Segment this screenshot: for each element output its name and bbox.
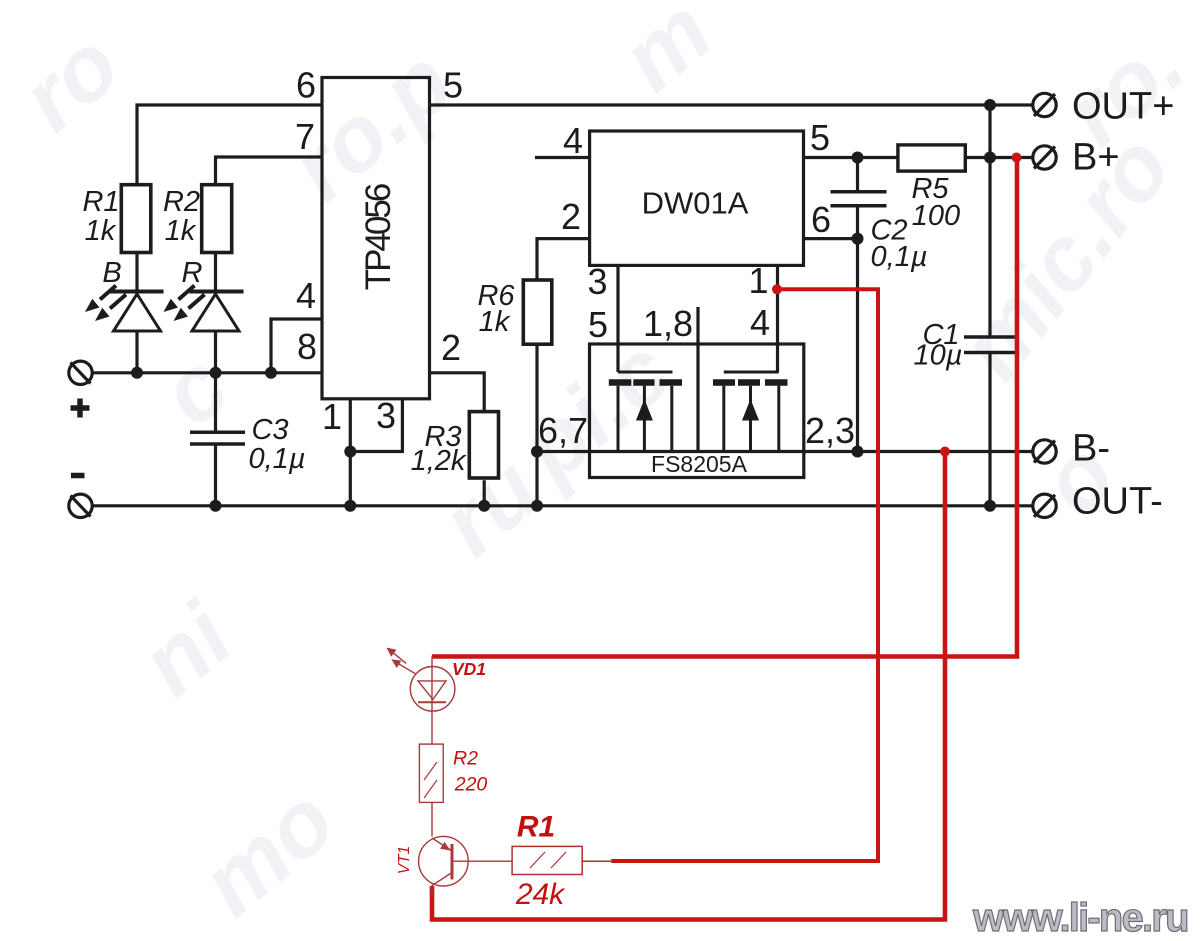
junction R6 / B- wire [531, 446, 543, 458]
junction pin1 / OUT- rail [344, 500, 356, 512]
svg-text:5: 5 [443, 65, 463, 106]
svg-text:1,2k: 1,2k [411, 445, 467, 477]
FS8205A right MOSFET body arrow [742, 399, 759, 421]
svg-text:5: 5 [810, 117, 830, 158]
svg-text:220: 220 [454, 774, 488, 796]
VT1 emitter arrow [440, 842, 450, 851]
wire TP4056 pin2 to R3 [430, 373, 485, 412]
junction pin1-pin3 [344, 446, 356, 458]
svg-text:R2: R2 [163, 186, 200, 218]
wire R6 bottom to OUT- [535, 344, 538, 506]
red wire DW01A pin1 to VT1/R1 branch [432, 158, 1017, 920]
IC U2 DW01A body [590, 131, 804, 265]
resistor R2 220 (red) [419, 744, 443, 836]
junction LED R / plus rail [210, 367, 222, 379]
wire LED R to plus rail [214, 331, 217, 373]
svg-text:1k: 1k [479, 306, 511, 338]
svg-text:R1: R1 [517, 811, 555, 844]
svg-text:6: 6 [296, 65, 316, 106]
svg-text:7: 7 [295, 116, 315, 157]
resistor R1 24k (red) [512, 846, 611, 874]
junction C1 / OUT- rail [984, 500, 996, 512]
terminal OUT+ [1033, 93, 1056, 116]
FS8205A right MOSFET [713, 372, 788, 452]
junction R6 / OUT- rail [531, 500, 543, 512]
wire OUT- bottom rail [93, 504, 1033, 507]
terminal plus input [69, 361, 92, 384]
svg-text:www.li-ne.ru: www.li-ne.ru [972, 896, 1188, 940]
resistor R5 100 [898, 145, 965, 171]
red wire B- to VT1 emitter rail [432, 452, 945, 920]
svg-text:2,3: 2,3 [805, 410, 855, 451]
junction R3 / OUT- rail [478, 500, 490, 512]
capacitor C2 0,1u [831, 192, 887, 206]
wire TP4056 pin1 down [349, 398, 352, 506]
wire DW01A pin5 to R5 [804, 156, 898, 159]
LED B symbol [110, 292, 164, 332]
svg-text:R1: R1 [82, 186, 119, 218]
svg-text:TP4056: TP4056 [359, 184, 398, 290]
LED B emission arrows [85, 286, 126, 322]
svg-text:R: R [182, 257, 203, 289]
wire B- rail [537, 450, 1033, 453]
red junction node B- [940, 447, 950, 457]
resistor R1 1k [121, 185, 151, 253]
svg-text:0,1µ: 0,1µ [248, 443, 305, 475]
svg-text:C3: C3 [251, 414, 288, 446]
wire C1 top lead from OUT+ [988, 105, 991, 337]
LED R symbol [190, 292, 244, 332]
wire TP4056 pin4 branch [271, 319, 322, 373]
svg-text:0,1µ: 0,1µ [870, 241, 927, 273]
wire TP4056 pin7 to R2 top [216, 157, 322, 185]
svg-text:4: 4 [563, 120, 583, 161]
wire C3 bottom lead [214, 444, 217, 506]
terminal B- [1033, 440, 1056, 463]
junction C2 / B- rail [852, 446, 864, 458]
terminal OUT- [1033, 494, 1056, 517]
svg-text:DW01A: DW01A [642, 186, 749, 221]
svg-text:4: 4 [750, 302, 770, 343]
capacitor C3 0,1u [190, 432, 245, 444]
wire TP4056 pin6 to R1 top [137, 105, 322, 185]
wire C1 bottom lead to OUT- [988, 353, 991, 506]
IC U3 FS8205A body [590, 344, 804, 478]
svg-text:3: 3 [376, 395, 396, 436]
FS8205A left MOSFET body arrow [636, 399, 653, 421]
VD1 emission arrows [388, 649, 416, 675]
svg-text:8: 8 [297, 326, 317, 367]
minus sign [71, 473, 85, 479]
FS8205A left MOSFET [609, 372, 682, 452]
wire DW01A pin1 to right gate [776, 265, 779, 372]
svg-text:3: 3 [587, 261, 607, 302]
svg-text:VD1: VD1 [452, 659, 486, 679]
svg-text:VT1: VT1 [396, 846, 413, 874]
svg-text:1: 1 [748, 260, 768, 301]
svg-text:2: 2 [441, 327, 461, 368]
wire TP4056 pin5 to OUT+ rail [430, 103, 1033, 106]
wire FS8205A pins 1,8 center tap [696, 307, 699, 452]
wire R5 to B+ terminal [965, 156, 1032, 159]
resistor R2 1k [202, 185, 232, 253]
wire TP4056 pin3 down and left [350, 398, 402, 452]
wire DW01A pin2 to R6 top [537, 239, 589, 280]
svg-text:B+: B+ [1072, 137, 1120, 179]
junction C3 / OUT- rail [210, 500, 222, 512]
junction pin4 branch / plus rail [265, 367, 277, 379]
transistor VT1 (PNP) [419, 836, 512, 896]
svg-text:6: 6 [811, 199, 831, 240]
junction C1 / OUT+ rail [984, 99, 996, 111]
svg-text:1k: 1k [165, 215, 197, 247]
svg-text:4: 4 [296, 275, 316, 316]
red junction node B+ [1012, 153, 1022, 163]
svg-text:OUT+: OUT+ [1072, 86, 1174, 128]
svg-text:24k: 24k [515, 878, 566, 911]
svg-text:1: 1 [322, 396, 342, 437]
LED VD1 [410, 657, 455, 746]
capacitor C1 10u [964, 337, 1016, 353]
resistor R6 1k [523, 280, 552, 344]
wire R2 bottom to LED R [214, 253, 217, 292]
junction C1 / B+ rail [984, 152, 996, 164]
terminal minus input [69, 494, 92, 517]
LED R emission arrows [164, 286, 205, 322]
wire C2 top lead [856, 158, 859, 192]
junction C2 / DW01A pin6 [852, 233, 864, 245]
junction C2 / B+ rail [852, 152, 864, 164]
wire LED B to plus rail [135, 331, 138, 373]
svg-text:B-: B- [1072, 428, 1110, 470]
resistor R3 1,2k [469, 412, 498, 478]
wire DW01A pin3 to left gate [616, 265, 619, 372]
wire R1 bottom to LED B [135, 253, 138, 292]
red wire B+ to VD1 anode [432, 158, 1017, 657]
wire plus input rail [93, 371, 322, 374]
svg-text:2: 2 [561, 196, 581, 237]
svg-text:1k: 1k [85, 215, 117, 247]
red junction node pin1 [772, 284, 782, 294]
svg-text:B: B [102, 257, 121, 289]
svg-text:10µ: 10µ [914, 340, 963, 372]
svg-text:FS8205A: FS8205A [651, 451, 748, 477]
svg-text:OUT-: OUT- [1072, 481, 1163, 523]
wire DW01A pin6 to C2 [803, 237, 857, 240]
wire C2 bottom lead down to B- rail [856, 206, 859, 452]
svg-text:1,8: 1,8 [643, 303, 693, 344]
IC U1 TP4056 body [322, 78, 430, 399]
svg-text:6,7: 6,7 [538, 410, 588, 451]
junction LED B / plus rail [131, 367, 143, 379]
wire DW01A pin4 stub [535, 156, 589, 159]
svg-text:100: 100 [912, 200, 960, 232]
wire C3 top lead [214, 373, 217, 433]
wire R3 bottom [483, 480, 486, 506]
terminal B+ [1033, 146, 1056, 169]
plus sign [71, 399, 90, 418]
svg-text:5: 5 [588, 304, 608, 345]
svg-text:R2: R2 [453, 748, 478, 770]
